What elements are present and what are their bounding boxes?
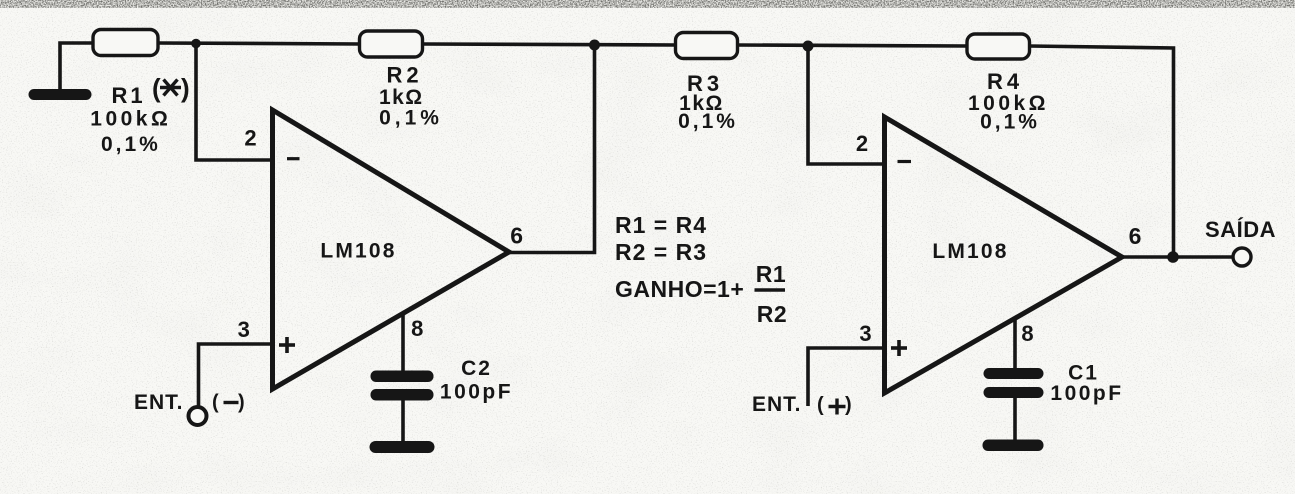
ground xyxy=(34,89,86,100)
svg-text:R2 = R3: R2 = R3 xyxy=(615,239,707,265)
wire pin8 U1 to C2 xyxy=(401,312,405,371)
formula fraction bar xyxy=(755,288,786,291)
svg-text:3: 3 xyxy=(238,317,250,342)
svg-text:100kΩ: 100kΩ xyxy=(90,108,171,131)
svg-text:6: 6 xyxy=(1129,223,1142,249)
svg-text:R1 = R4: R1 = R4 xyxy=(615,212,707,238)
svg-text:R2: R2 xyxy=(757,301,787,327)
op-amp U2 plus xyxy=(891,340,907,356)
svg-text:(: ( xyxy=(152,73,161,103)
resistor R1 xyxy=(93,30,158,56)
resistor R2 xyxy=(360,31,423,57)
op-amp U1 plus xyxy=(279,337,295,353)
node C xyxy=(803,41,814,52)
svg-text:100pF: 100pF xyxy=(1050,382,1123,405)
node D xyxy=(1167,251,1179,263)
wire R4 to right drop xyxy=(1029,46,1174,257)
wire R1 to R2 through node A xyxy=(157,43,360,44)
op-amp U1 minus xyxy=(287,157,300,160)
svg-text:LM108: LM108 xyxy=(932,240,1008,263)
svg-text:GANHO=1+: GANHO=1+ xyxy=(615,276,744,302)
svg-text:R1: R1 xyxy=(111,83,145,108)
node B xyxy=(589,40,600,51)
terminal ENT(-) xyxy=(189,407,207,425)
svg-text:R2: R2 xyxy=(386,63,422,88)
svg-text:3: 3 xyxy=(859,321,871,346)
op-amp U2 minus xyxy=(898,160,912,163)
wire R3 to R4 through node C xyxy=(737,45,968,46)
svg-text:ENT.: ENT. xyxy=(752,393,802,416)
top scan band xyxy=(0,0,1295,7)
svg-text:0,1%: 0,1% xyxy=(379,107,443,130)
wire node C down to pin2 U2 xyxy=(808,46,884,164)
svg-text:): ) xyxy=(181,73,190,103)
svg-text:0,1%: 0,1% xyxy=(678,110,738,133)
label R1 star note xyxy=(152,73,190,103)
wire R2 to R3 through node B xyxy=(422,44,676,45)
op-amp U2 xyxy=(885,117,1123,393)
wire C2 plate to ground bar xyxy=(401,400,405,442)
svg-text:SAÍDA: SAÍDA xyxy=(1205,217,1276,242)
svg-text:2: 2 xyxy=(856,131,868,156)
resistor R3 xyxy=(676,33,738,59)
svg-text:R1: R1 xyxy=(756,261,786,287)
wire ENT(+) to pin3 U2 xyxy=(808,348,884,406)
wire pin8 U2 to C1 xyxy=(1013,317,1017,369)
svg-text:): ) xyxy=(845,394,852,416)
wire op-amp2 output to SAIDA xyxy=(1121,255,1233,259)
svg-text:6: 6 xyxy=(510,223,523,249)
svg-text:(: ( xyxy=(817,394,824,416)
svg-text:0,1%: 0,1% xyxy=(101,133,161,156)
capacitor C1 xyxy=(983,368,1044,451)
svg-text:8: 8 xyxy=(411,316,423,341)
node A xyxy=(191,39,201,49)
wire node A down to pin2 U1 xyxy=(196,43,272,160)
wire C1 plate to ground bar xyxy=(1013,397,1017,440)
svg-text:100pF: 100pF xyxy=(440,381,513,404)
svg-text:C2: C2 xyxy=(461,357,492,380)
svg-text:(: ( xyxy=(212,392,219,414)
terminal SAIDA xyxy=(1233,248,1251,266)
svg-text:): ) xyxy=(238,392,245,414)
op-amp U1 xyxy=(273,110,510,389)
svg-text:0,1%: 0,1% xyxy=(980,111,1040,134)
svg-text:R4: R4 xyxy=(987,69,1023,94)
svg-text:LM108: LM108 xyxy=(320,240,396,263)
resistor R4 xyxy=(967,34,1030,59)
svg-text:2: 2 xyxy=(244,126,256,151)
svg-text:ENT.: ENT. xyxy=(134,391,184,414)
wire op-amp1 output up to node B xyxy=(508,45,595,253)
svg-text:8: 8 xyxy=(1021,321,1033,346)
wire ground riser xyxy=(60,43,94,95)
wire ENT(-) to pin3 U1 xyxy=(199,344,273,407)
capacitor C2 xyxy=(370,371,435,454)
